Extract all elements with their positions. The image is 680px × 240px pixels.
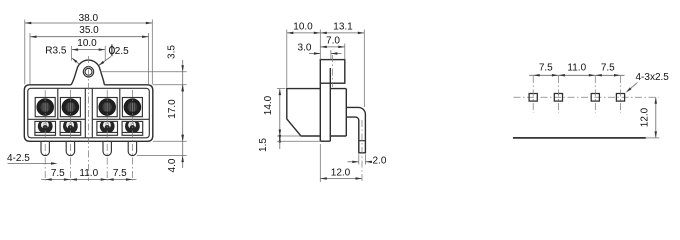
left view: center divider right wall [91,88,93,138]
pcb layout: pad 3 vertical centerline [594,76,596,113]
left view: crimp cavity square pos 4 [122,121,143,135]
dimension 14.0 (body height) [263,89,281,136]
dimension 3.5 arrows [181,65,184,72]
label R3.5 with leader [45,46,79,65]
left view: socket cavity square pos 3 [97,98,117,117]
extension line 35.0 right [148,33,150,84]
svg-text:10.0: 10.0 [293,21,313,32]
left view: socket cavity square pos 4 [122,98,142,117]
left view: solder pin 2 [66,141,74,155]
extension line 10.0 right [104,46,106,61]
svg-text:12.0: 12.0 [639,107,650,127]
left view: crimp contact pos 1 (dark ring) [38,119,53,134]
dimension 1.5 (flange below body) [258,135,281,152]
pcb layout: pad 4 vertical centerline [620,76,622,113]
extension line pin right edge [364,154,366,164]
svg-text:1.5: 1.5 [258,138,269,152]
svg-text:17.0: 17.0 [167,99,178,119]
left view: mounting ear outline [71,60,104,85]
side view: bent solder pin outline [346,107,365,152]
extension line body bottom left [277,135,301,137]
svg-text:R3.5: R3.5 [45,46,67,57]
side view: step block bottom edge [330,135,346,137]
dimension 2.0 (pin thickness) [348,155,387,166]
svg-text:4-2.5: 4-2.5 [7,153,30,164]
left view: socket cavity square pos 2 [60,98,80,117]
side view: pin shoulder tick [359,140,366,142]
left view: crimp contact pos 4 (dark ring) [125,119,140,134]
side view: step block right edge [345,89,347,136]
extension line 38.0 left [24,20,26,85]
extension line flange left top [319,30,321,60]
dimension 17.0 (body height) line [182,85,184,142]
side view: pin centerline [361,120,363,183]
extension line 10.0 left [71,46,73,61]
left view: ear hole inner circle (dia 2.5) [85,68,92,75]
dimension 4.0 arrows [181,135,184,142]
left view: cavity divider between pos 1-2 [57,88,59,119]
svg-text:38.0: 38.0 [79,13,99,24]
pcb dimension 12.0 line [655,97,657,138]
left view: centerline pin 2 [69,90,71,181]
dimension 38.0 (overall width) [25,13,153,24]
label dia 2.5 (phi symbol + text) with leader [98,44,129,66]
left view: crimp cavity inner line pos 3 [97,131,118,133]
left view: housing inner face outline [28,88,150,138]
svg-text:4.0: 4.0 [167,158,178,172]
left view: shelf line left half [28,118,86,120]
svg-text:2.5: 2.5 [115,46,129,57]
left view: crimp cavity inner line pos 2 [60,131,81,133]
extension line 38.0 right [151,20,153,85]
left view: crimp contact pos 2 (dark ring) [63,119,78,134]
extension line ear right [344,44,346,60]
dimension 13.1 [320,21,364,34]
extension line pin outer [363,30,365,108]
left view: solder pin 3 [103,141,111,155]
svg-text:2.0: 2.0 [373,155,387,166]
left view: ear vertical centerline [88,56,90,181]
dimension 12.0 (pin reach) [320,167,362,180]
dimension 7.0 (ear depth) [320,35,345,48]
dimension chain 7.5/11.0/7.5 line [41,179,136,181]
left view: centerline pin 4 [131,90,133,181]
dimension 10.0 (body depth) [287,21,321,34]
side view: flange bottom edge [320,140,330,142]
pcb dimension chain 7.5/11.0/7.5 line [529,74,624,76]
left view: crimp cavity inner line pos 1 [35,131,56,133]
pcb layout: pad hole 4 (square) [616,94,624,102]
left view: center divider left wall [84,88,86,138]
left view: crimp cavity inner line pos 4 [122,131,143,133]
side view: main body outline (chamfered block) [287,89,321,136]
pcb label 4-3x2.5 with leader [626,72,669,93]
left view: crimp cavity square pos 3 [97,121,118,135]
left view: socket cavity square pos 1 [35,98,55,117]
pcb layout: pad hole 1 (square) [529,94,537,102]
label 4-2.5 with leader [7,153,58,165]
svg-text:7.0: 7.0 [326,35,340,46]
svg-text:7.5: 7.5 [601,62,615,73]
left view: socket contact pos 3 (dark circle) [99,99,116,116]
pcb dimension 12.0 arrows [655,97,658,104]
dimension 3.5 (ear hole height) line [182,60,184,93]
svg-text:4-3x2.5: 4-3x2.5 [636,72,670,83]
pcb layout: pad hole 2 (square) [554,94,562,102]
dimension 10.0 (ear width) [72,38,106,51]
left view: centerline pin 1 [44,90,46,181]
side view: flange left edge [319,83,321,141]
extension line 35.0 left [29,33,31,84]
left view: solder pin 1 [41,141,49,155]
pcb layout: pad hole 3 (square) [591,94,599,102]
extension line pin left edge [358,154,360,164]
pcb dimension chain arrows [533,74,540,77]
extension line flange right top [330,50,332,60]
left view: crimp contact pos 3 (dark ring) [100,119,115,134]
left view: ear hole outer circle (chamfer) [83,67,93,77]
dimension 3.0 (flange thickness) [298,43,342,55]
dimension 17.0 arrows [181,85,184,92]
left view: crimp cavity square pos 2 [60,121,81,135]
side view: step block top edge [330,88,346,90]
svg-text:7.5: 7.5 [539,62,553,73]
left view: crimp cavity square pos 1 [35,121,56,135]
dimension chain arrows [45,178,52,181]
extension line pin bottom level [137,155,187,157]
extension line flange bottom corner [319,144,321,182]
svg-text:14.0: 14.0 [263,95,274,115]
svg-text:11.0: 11.0 [79,168,98,179]
extension line body top left [277,88,285,90]
side view: ear centerline [332,55,334,87]
left view: cavity divider between pos 3-4 [119,88,121,119]
extension line body bottom level [153,140,187,142]
left view: socket contact pos 2 (dark circle) [62,99,79,116]
pcb layout: horizontal centerline through pads [514,96,659,98]
dimension 35.0 [30,25,149,38]
pcb layout: board edge line [513,137,646,139]
pcb layout: pad 1 vertical centerline [532,76,534,113]
extension line hole center level [100,71,186,73]
side view: mounting ear (top box) [320,60,345,84]
svg-text:12.0: 12.0 [331,167,351,178]
side view: flange right edge [329,68,331,141]
pcb layout: pad 2 vertical centerline [557,76,559,113]
left view: connector housing outer outline [24,85,153,142]
pcb extension line board edge right [646,137,660,139]
svg-text:11.0: 11.0 [567,62,586,73]
svg-text:3.0: 3.0 [298,43,312,54]
left view: centerline pin 3 [106,90,108,181]
left view: shelf line right half [92,118,149,120]
left view: solder pin 4 [128,141,136,155]
svg-text:7.5: 7.5 [113,168,127,179]
left view: socket contact pos 4 (dark circle) [124,99,141,116]
extension line body top level [153,84,187,86]
svg-text:7.5: 7.5 [51,168,65,179]
svg-text:10.0: 10.0 [77,38,97,49]
svg-text:3.5: 3.5 [167,45,178,59]
extension line flange bottom left [277,140,320,142]
left view: socket contact pos 1 (dark circle) [37,99,54,116]
svg-text:35.0: 35.0 [79,25,99,36]
dimension 4.0 (pin length) line [182,141,184,168]
extension line body left [286,30,288,88]
svg-text:13.1: 13.1 [333,21,353,32]
